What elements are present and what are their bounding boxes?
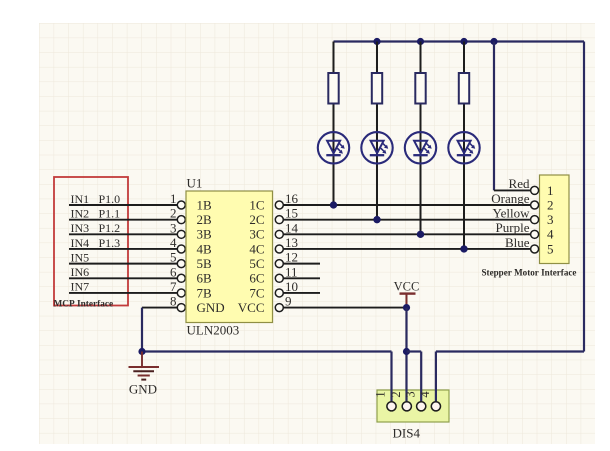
net label P1.2 bbox=[99, 221, 121, 235]
stepper pin number 3 bbox=[547, 212, 554, 227]
pin number 3 bbox=[170, 220, 177, 235]
pin number 10 bbox=[285, 279, 298, 294]
wire: input row 5 bbox=[69, 263, 177, 265]
MCP Interface outline box bbox=[54, 177, 128, 306]
label: MCP Interface bbox=[54, 299, 114, 309]
svg-text:5B: 5B bbox=[197, 256, 213, 271]
net label IN7 bbox=[71, 280, 90, 294]
chip pin name 6C bbox=[249, 271, 264, 286]
junction: column 4 to output wire bbox=[460, 245, 467, 252]
svg-text:GND: GND bbox=[197, 300, 225, 315]
svg-text:P1.3: P1.3 bbox=[99, 236, 121, 250]
resistor R3 bbox=[415, 73, 425, 104]
svg-text:1: 1 bbox=[547, 183, 554, 198]
pin circle 14 bbox=[275, 230, 283, 238]
svg-text:2: 2 bbox=[547, 197, 554, 212]
stepper pin number 4 bbox=[547, 227, 554, 242]
svg-text:7B: 7B bbox=[197, 285, 213, 300]
net label Red bbox=[509, 176, 530, 191]
pin number 6 bbox=[170, 264, 177, 279]
chip pin name GND bbox=[197, 300, 225, 315]
svg-text:6B: 6B bbox=[197, 271, 213, 286]
svg-text:3: 3 bbox=[547, 212, 554, 227]
wire: VCC to DIS4 pin3 bbox=[407, 352, 422, 402]
svg-text:VCC: VCC bbox=[238, 300, 265, 315]
wire: output row pin 9 bbox=[283, 307, 406, 309]
pin number 4 bbox=[170, 235, 177, 250]
DIS4 pin number 4 bbox=[418, 391, 432, 398]
stepper pin number 2 bbox=[547, 197, 554, 212]
pin circle 15 bbox=[275, 216, 283, 224]
net label P1.1 bbox=[99, 206, 121, 220]
DIS4 pin circle 1 bbox=[387, 402, 396, 411]
pin circle 4 bbox=[177, 245, 185, 253]
pin circle stepper 3 bbox=[531, 216, 539, 224]
wire: right side vertical bbox=[583, 42, 585, 352]
net label IN2 bbox=[71, 206, 90, 220]
svg-text:4C: 4C bbox=[249, 241, 264, 256]
svg-text:7: 7 bbox=[170, 279, 177, 294]
pin circle 6 bbox=[177, 274, 185, 282]
wire: column 4 vertical bbox=[463, 42, 465, 249]
net label Orange bbox=[491, 191, 529, 206]
LED D4 bbox=[448, 132, 479, 163]
wire: rail to stepper pin 1 (Red) bbox=[494, 42, 531, 191]
pin number 15 bbox=[285, 206, 298, 221]
svg-text:10: 10 bbox=[285, 279, 298, 294]
junction: output wire 14 bbox=[417, 231, 424, 238]
wire: DIS4 pin1 drop bbox=[390, 352, 392, 402]
chip pin name 4C bbox=[249, 241, 264, 256]
svg-text:6: 6 bbox=[170, 264, 177, 279]
svg-text:15: 15 bbox=[285, 206, 298, 221]
op-amp U1 body (ULN2003) bbox=[186, 191, 273, 323]
pin number 12 bbox=[285, 250, 298, 265]
junction on top rail 2 bbox=[417, 38, 424, 45]
pin circle 9 bbox=[275, 304, 283, 312]
pin number 16 bbox=[285, 191, 299, 206]
wire: output row pin 15 bbox=[283, 219, 530, 221]
chip pin name 7B bbox=[197, 285, 213, 300]
chip pin name 3B bbox=[197, 227, 213, 242]
junction: output wire 15 bbox=[373, 216, 380, 223]
net label Blue bbox=[505, 235, 530, 250]
svg-text:IN4: IN4 bbox=[71, 236, 90, 250]
svg-text:GND: GND bbox=[129, 382, 157, 397]
svg-text:1: 1 bbox=[170, 191, 177, 206]
designator U1 bbox=[187, 176, 203, 191]
wire: input row 3 bbox=[69, 233, 177, 235]
pin circle 12 bbox=[275, 260, 283, 268]
svg-text:Stepper Motor Interface: Stepper Motor Interface bbox=[482, 268, 577, 278]
svg-text:9: 9 bbox=[285, 294, 292, 309]
pin number 7 bbox=[170, 279, 177, 294]
svg-text:IN3: IN3 bbox=[71, 221, 90, 235]
svg-text:1B: 1B bbox=[197, 197, 213, 212]
wire: input row 6 bbox=[69, 277, 177, 279]
net label IN5 bbox=[71, 250, 90, 264]
DIS4 pin circle 4 bbox=[431, 402, 440, 411]
pin circle stepper 1 bbox=[531, 186, 539, 194]
junction: column 1 to output wire bbox=[330, 201, 337, 208]
pin circle 13 bbox=[275, 245, 283, 253]
svg-text:4: 4 bbox=[170, 235, 177, 250]
chip pin name 1C bbox=[249, 197, 264, 212]
LED D1 bbox=[318, 132, 349, 163]
net label P1.0 bbox=[99, 192, 121, 206]
svg-text:3B: 3B bbox=[197, 227, 213, 242]
net label P1.3 bbox=[99, 236, 121, 250]
LED D2 bbox=[361, 132, 392, 163]
svg-text:7C: 7C bbox=[249, 285, 264, 300]
pin number 1 bbox=[170, 191, 177, 206]
svg-text:2C: 2C bbox=[249, 212, 264, 227]
wire: input row 4 bbox=[69, 248, 177, 250]
pin circle stepper 5 bbox=[531, 245, 539, 253]
wire: input row 1 bbox=[69, 204, 177, 206]
pin number 14 bbox=[285, 220, 299, 235]
svg-text:Purple: Purple bbox=[496, 220, 530, 235]
wire: input row 8 bbox=[142, 307, 177, 309]
chip pin name 5B bbox=[197, 256, 213, 271]
net label IN4 bbox=[71, 236, 90, 250]
wire: output row pin 14 bbox=[283, 233, 530, 235]
wire: top VCC rail bbox=[334, 40, 585, 42]
svg-text:14: 14 bbox=[285, 220, 299, 235]
svg-text:MCP Interface: MCP Interface bbox=[54, 299, 114, 309]
wire: pin8 to GND net bbox=[141, 308, 143, 352]
svg-text:Blue: Blue bbox=[505, 235, 530, 250]
svg-text:IN7: IN7 bbox=[71, 280, 90, 294]
pin circle 10 bbox=[275, 289, 283, 297]
wire: output row pin 12 bbox=[283, 263, 320, 265]
value label ULN2003 bbox=[187, 323, 240, 338]
svg-text:IN6: IN6 bbox=[71, 265, 90, 279]
pin circle 5 bbox=[177, 260, 185, 268]
svg-text:1C: 1C bbox=[249, 197, 264, 212]
net label Yellow bbox=[493, 205, 531, 220]
resistor R2 bbox=[372, 73, 382, 104]
pin number 13 bbox=[285, 235, 298, 250]
svg-text:5C: 5C bbox=[249, 256, 264, 271]
wire: input row 2 bbox=[69, 219, 177, 221]
chip pin name 7C bbox=[249, 285, 264, 300]
svg-text:8: 8 bbox=[170, 294, 177, 309]
svg-text:5: 5 bbox=[547, 241, 554, 256]
svg-text:1: 1 bbox=[374, 391, 388, 397]
wire: column 2 vertical bbox=[376, 42, 378, 220]
net label IN3 bbox=[71, 221, 90, 235]
pin number 11 bbox=[285, 264, 298, 279]
pin number 8 bbox=[170, 294, 177, 309]
label GND bbox=[129, 382, 157, 397]
svg-text:P1.1: P1.1 bbox=[99, 206, 121, 220]
stepper pin number 5 bbox=[547, 241, 554, 256]
svg-text:Yellow: Yellow bbox=[493, 205, 531, 220]
wire: output row pin 11 bbox=[283, 277, 320, 279]
svg-text:DIS4: DIS4 bbox=[393, 426, 421, 441]
svg-text:U1: U1 bbox=[187, 176, 203, 191]
connector DIS4 body bbox=[377, 390, 449, 422]
svg-text:IN1: IN1 bbox=[71, 192, 90, 206]
chip pin name 4B bbox=[197, 241, 213, 256]
resistor R1 bbox=[328, 73, 338, 104]
wire: VCC vertical bbox=[405, 308, 407, 402]
pin number 5 bbox=[170, 250, 177, 265]
junction: VCC to pin 9 bbox=[403, 304, 410, 311]
junction: VCC net bottom bbox=[403, 348, 410, 355]
net label Purple bbox=[496, 220, 530, 235]
svg-text:Orange: Orange bbox=[491, 191, 529, 206]
pin circle 11 bbox=[275, 274, 283, 282]
wire: DIS4 pin4 to right vertical bbox=[436, 352, 584, 402]
junction: output wire 13 bbox=[460, 245, 467, 252]
net label IN1 bbox=[71, 192, 90, 206]
LED D3 bbox=[405, 132, 436, 163]
wire: column 1 vertical bbox=[333, 42, 335, 206]
ground symbol bbox=[129, 352, 160, 380]
svg-text:16: 16 bbox=[285, 191, 299, 206]
chip pin name 2C bbox=[249, 212, 264, 227]
chip pin name 5C bbox=[249, 256, 264, 271]
net label IN6 bbox=[71, 265, 90, 279]
svg-text:IN5: IN5 bbox=[71, 250, 90, 264]
wire: output row pin 16 bbox=[283, 204, 530, 206]
svg-text:3: 3 bbox=[403, 391, 417, 397]
pin circle 16 bbox=[275, 201, 283, 209]
pin circle 3 bbox=[177, 230, 185, 238]
svg-text:3C: 3C bbox=[249, 227, 264, 242]
Stepper Motor connector body bbox=[540, 175, 570, 264]
junction on top rail 3 bbox=[460, 38, 467, 45]
svg-text:ULN2003: ULN2003 bbox=[187, 323, 240, 338]
wire: column 3 vertical bbox=[420, 42, 422, 235]
svg-text:5: 5 bbox=[170, 250, 177, 265]
stepper pin number 1 bbox=[547, 183, 554, 198]
chip pin name 3C bbox=[249, 227, 264, 242]
junction on top rail 4 bbox=[490, 38, 497, 45]
svg-text:11: 11 bbox=[285, 264, 298, 279]
DIS4 pin circle 3 bbox=[417, 402, 426, 411]
pin number 9 bbox=[285, 294, 292, 309]
DIS4 pin circle 2 bbox=[402, 402, 411, 411]
resistor R4 bbox=[459, 73, 469, 104]
junction: output wire 16 bbox=[330, 201, 337, 208]
label: Stepper Motor Interface bbox=[482, 268, 577, 278]
pin circle stepper 4 bbox=[531, 230, 539, 238]
svg-text:IN2: IN2 bbox=[71, 206, 90, 220]
pin circle stepper 2 bbox=[531, 201, 539, 209]
svg-text:P1.2: P1.2 bbox=[99, 221, 121, 235]
pin circle 1 bbox=[177, 201, 185, 209]
svg-text:VCC: VCC bbox=[394, 280, 420, 294]
label DIS4 bbox=[393, 426, 421, 441]
wire: bottom horizontal GND net bbox=[142, 350, 392, 352]
chip pin name 1B bbox=[197, 197, 213, 212]
chip pin name 2B bbox=[197, 212, 213, 227]
svg-text:2B: 2B bbox=[197, 212, 213, 227]
junction on top rail 1 bbox=[373, 38, 380, 45]
wire: input row 7 bbox=[69, 292, 177, 294]
pin circle 2 bbox=[177, 216, 185, 224]
svg-text:P1.0: P1.0 bbox=[99, 192, 121, 206]
chip pin name 6B bbox=[197, 271, 213, 286]
svg-text:2: 2 bbox=[389, 391, 403, 397]
junction: column 3 to output wire bbox=[417, 231, 424, 238]
pin number 2 bbox=[170, 206, 177, 221]
wire: output row pin 13 bbox=[283, 248, 530, 250]
chip pin name VCC bbox=[238, 300, 265, 315]
svg-text:Red: Red bbox=[509, 176, 530, 191]
svg-text:6C: 6C bbox=[249, 271, 264, 286]
DIS4 pin number 3 bbox=[403, 391, 417, 397]
DIS4 pin number 2 bbox=[389, 391, 403, 397]
pin circle 8 bbox=[177, 304, 185, 312]
wire: output row pin 10 bbox=[283, 292, 320, 294]
svg-text:4B: 4B bbox=[197, 241, 213, 256]
svg-text:2: 2 bbox=[170, 206, 177, 221]
junction: column 2 to output wire bbox=[373, 216, 380, 223]
svg-text:4: 4 bbox=[547, 227, 554, 242]
svg-text:12: 12 bbox=[285, 250, 298, 265]
pin circle 7 bbox=[177, 289, 185, 297]
power VCC symbol bbox=[394, 280, 420, 308]
DIS4 pin number 1 bbox=[374, 391, 388, 397]
junction: GND bbox=[138, 348, 145, 355]
svg-text:4: 4 bbox=[418, 391, 432, 398]
svg-text:3: 3 bbox=[170, 220, 177, 235]
svg-text:13: 13 bbox=[285, 235, 298, 250]
